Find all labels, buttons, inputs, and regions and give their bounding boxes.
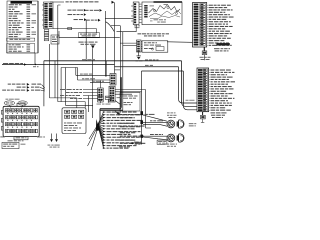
wire: dimmer feed drop x=120.3 xyxy=(120,26,136,109)
wire: link y=25.6 to dimmer drop xyxy=(111,25,120,27)
C100 dark highlighted row xyxy=(216,43,229,45)
steering column label box xyxy=(120,93,140,112)
wire: riser x=145.5 from column wire xyxy=(146,90,152,129)
tail/stop lamp LP2 xyxy=(165,134,184,147)
wire: dimmer box to cluster connector C100 xyxy=(167,41,192,44)
wire: junction seg y=69.9 and column connector feed xyxy=(115,69,121,71)
C100 pin labels (right) xyxy=(207,5,234,46)
bus wire H7 y=66.8 (middle loop to cluster) xyxy=(115,67,198,114)
convenience center block xyxy=(62,108,86,134)
IP cluster connector C101 (right middle) xyxy=(197,68,209,112)
labels with arrows (feed wires left) xyxy=(68,9,87,21)
small relay boxes above fan xyxy=(97,96,112,104)
wire: vertical x=43.9 (bus corner to fuse block) xyxy=(43,61,45,107)
column connector A xyxy=(98,81,104,103)
label: instrument panel cluster (bottom) xyxy=(211,112,227,118)
bracket label above bus xyxy=(79,42,98,49)
wires from riser to backup lamp connectors xyxy=(143,115,167,140)
wire: drop x=92.6 xyxy=(92,48,94,118)
bus wire H2 y=64.5 with label and arrow xyxy=(2,63,115,66)
wire: third feed into inline connector xyxy=(90,81,110,83)
label: printed circuit xyxy=(200,57,211,60)
fan wires going down-left xyxy=(88,126,98,150)
junction S204 label xyxy=(33,64,39,67)
note box bottom-left corner xyxy=(2,142,25,148)
feed labels with arrows to junction S206 xyxy=(2,83,45,92)
harness fan-out hub xyxy=(96,119,100,131)
wire: horizontal y=28.6 with inline connector xyxy=(53,27,97,33)
wire: table drop x=35 to bus H2 xyxy=(34,53,36,65)
label: instrument panel cluster (top) xyxy=(214,48,230,51)
label: fuse panel text below block xyxy=(8,140,24,141)
label: turn & hazard lamps control switch xyxy=(138,33,170,36)
IP cluster connector C100 (top right) xyxy=(193,3,207,48)
harness bundle to fan hub xyxy=(100,77,123,120)
fan wires with labels xyxy=(98,111,145,149)
connector strip lower section xyxy=(44,30,59,45)
wires into connector B from right xyxy=(115,90,145,105)
wire: strip drop x=49.5 xyxy=(49,44,51,98)
fuse block FB1 xyxy=(1,103,39,139)
bottom labels under lamp wires xyxy=(119,140,167,147)
tail/stop lamp LP1 xyxy=(167,115,184,128)
ignition switch connector C1 (steering column strip) xyxy=(42,2,53,29)
legend table (wire color code list) xyxy=(7,1,38,53)
wire: vertical x=106.2 (bus to column) xyxy=(105,61,107,77)
label: back up lamps xyxy=(189,123,197,126)
wire: drop x=55 from H1 with elbow to convenience center xyxy=(50,61,77,108)
grounds below convenience center xyxy=(48,134,60,148)
label: fuse block text xyxy=(37,136,45,139)
labels pointing to junction drops xyxy=(86,9,103,22)
bus wire H1 y=60.8 (to cluster connector loop) xyxy=(44,59,197,106)
C100 stem and inline connector xyxy=(202,47,207,60)
bus wire H3 y=67.5 xyxy=(61,68,77,102)
inline connector C205 (above column strip) xyxy=(110,74,116,86)
wire: drop x=86 xyxy=(85,20,87,61)
wire: lamps riser x=141.5 xyxy=(141,71,143,145)
wire labels left of lamps xyxy=(145,114,164,135)
column connector B xyxy=(109,86,115,102)
relay and flasher ovals above fuse block xyxy=(4,99,27,108)
ground G201 below dimmer connector xyxy=(136,52,143,61)
wire: long drop x=105.3 with tee to switch connector xyxy=(105,11,133,77)
tail lamp harness labels xyxy=(120,114,146,144)
junction blobs on lamps riser xyxy=(140,111,143,138)
bus wire H6 y=71 (lamps riser to cluster loop) xyxy=(142,71,198,110)
C101 stem, inline connector and label xyxy=(201,112,206,123)
marks left of fuse block bottom xyxy=(0,136,5,137)
wire: horizontal y=37.7 xyxy=(59,31,120,38)
label box SEE FUSE PANEL xyxy=(79,33,100,38)
wire: drop x=65.4 elbow to riser x=92.7 xyxy=(65,68,92,106)
dimmer switch box U2 xyxy=(142,41,168,52)
wire: link y=31.7 to switch stem xyxy=(117,31,137,33)
wire: column feed with label xyxy=(50,1,114,4)
wire: drop x=61.1 elbow to convenience center xyxy=(58,102,85,108)
C101 pin labels (right) xyxy=(209,70,236,111)
wire: dimmer feed drop x=122.8 xyxy=(123,32,137,110)
wire: drop x=57.8 from legend strip to bus xyxy=(58,5,61,102)
wire: vertical x=92.3 and x=88.3 xyxy=(87,96,89,113)
wires with labels into column connector A xyxy=(60,89,98,99)
wire: drop x=114.5 (top to column connector) xyxy=(114,2,116,73)
turn signal & headlamps control switch detail box U1 xyxy=(142,1,182,25)
bus wire H4 y=75.3 into column connector xyxy=(76,68,110,76)
wire: diagonal link to drop x=114.5 xyxy=(106,22,114,32)
dimmer switch connector C3 xyxy=(137,40,143,52)
bus wire H5 y=80 into column connector xyxy=(78,78,111,80)
turn signal switch connector C2 xyxy=(131,2,141,32)
